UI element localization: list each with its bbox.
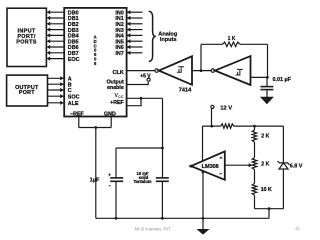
resistor R5 10K: [252, 183, 272, 208]
inverter U2b: [211, 56, 250, 85]
wire ground rail: [96, 217, 269, 219]
svg-text:–: –: [219, 172, 222, 178]
inverter U2a 7414: [155, 56, 192, 93]
wire ground drop: [95, 128, 97, 219]
footer author text: [135, 226, 171, 231]
wire VCC net: [127, 98, 163, 148]
wire divider bottom: [255, 208, 284, 210]
wire EOC to input port: [47, 57, 65, 61]
svg-text:EOC: EOC: [68, 57, 80, 63]
wire analog input IN0: [127, 10, 143, 14]
node junction divider bottom: [268, 207, 271, 210]
svg-text:CLK: CLK: [112, 70, 123, 76]
svg-text:–: –: [109, 183, 112, 188]
wire DB3 to input port: [47, 28, 65, 32]
svg-text:inputs: inputs: [160, 37, 177, 43]
svg-text:12 V: 12 V: [220, 105, 232, 111]
ADC0808 data pin labels DB0-DB7 EOC: [68, 10, 80, 62]
wire inverter2 input: [251, 76, 268, 78]
svg-text:6.8 V: 6.8 V: [290, 164, 303, 170]
capacitor C2 1uF: [90, 148, 123, 218]
op-amp U3 LM308: [189, 151, 225, 179]
wire output port to A: [48, 76, 65, 80]
ADC0808 pin label +REF: [110, 100, 124, 106]
wire divider bottom to rail: [268, 209, 270, 219]
ADC0808 pin label CLK: [112, 70, 123, 76]
wire CLK to oscillator: [127, 70, 155, 72]
wire rail to zener: [255, 125, 284, 127]
ADC0808 U1 body: [64, 8, 126, 117]
svg-text:2 K: 2 K: [261, 161, 269, 167]
wire output port to SOC: [48, 94, 65, 98]
node junction -REF GND: [94, 126, 97, 129]
node junction feedback tap: [200, 69, 203, 72]
node junction bypass caps: [161, 147, 164, 150]
wire output port to ALE: [48, 101, 65, 105]
wire output port to C: [48, 88, 65, 92]
ADC0808 pin label VCC: [114, 93, 123, 99]
svg-text:enable: enable: [107, 85, 124, 91]
wire caps top rail: [116, 147, 163, 149]
resistor R1 1K: [201, 36, 268, 47]
wire analog input IN7: [127, 51, 143, 55]
svg-text:Tantalum: Tantalum: [133, 179, 151, 184]
output port box: [7, 75, 48, 106]
ground for C1: [260, 97, 274, 104]
wire DB1 to input port: [47, 16, 65, 20]
svg-text:Mr B Kannan, RIT: Mr B Kannan, RIT: [135, 226, 171, 231]
svg-text:+: +: [219, 157, 222, 162]
svg-text:PORT: PORT: [19, 90, 35, 96]
wire analog input IN2: [127, 22, 143, 26]
wire LM308 V- to ground: [202, 172, 204, 218]
capacitor C1 0.01uF: [260, 77, 291, 97]
node junction 12V rail: [210, 125, 213, 128]
label Analog inputs: [158, 32, 178, 44]
svg-text:10 K: 10 K: [261, 187, 272, 193]
ADC0808 control pin labels A B C SOC ALE: [68, 77, 80, 108]
svg-text:–REF: –REF: [70, 111, 84, 117]
input port box: [7, 8, 46, 66]
wire analog input IN1: [127, 16, 143, 20]
wire LM308 V+ supply: [202, 126, 204, 161]
wire 12V drop: [211, 109, 213, 127]
svg-text:SOC: SOC: [68, 94, 80, 100]
node junction divider top: [253, 125, 256, 128]
wire +REF branch: [127, 98, 141, 105]
wire LM308 +input to wiper: [225, 163, 253, 167]
svg-text:0.01 µF: 0.01 µF: [273, 77, 292, 83]
node junction VCC +REF: [140, 97, 143, 100]
ADC0808 pin label Output enable: [106, 79, 124, 91]
wire DB2 to input port: [47, 22, 65, 26]
svg-text:PORTS: PORTS: [16, 39, 36, 45]
wire DB5 to input port: [47, 39, 65, 43]
svg-text:LM308: LM308: [202, 164, 219, 170]
node junction C2 ground: [115, 217, 118, 220]
zener diode D1 6.8V: [278, 126, 303, 209]
resistor R4 2K potentiometer: [252, 158, 269, 184]
svg-text:IN7: IN7: [115, 51, 123, 57]
node junction LM308 V-: [202, 171, 205, 174]
svg-text:ALE: ALE: [68, 101, 79, 107]
wire +5V to output enable: [127, 82, 149, 84]
svg-text:1µF: 1µF: [90, 177, 100, 183]
wire -REF GND tie: [79, 117, 111, 128]
svg-text:+REF: +REF: [110, 100, 124, 106]
12V terminal: [211, 105, 232, 111]
wire analog input IN4: [127, 33, 143, 37]
wire output port to B: [48, 82, 65, 86]
wire DB4 to input port: [47, 33, 65, 37]
wire inverter1 input node: [192, 70, 211, 72]
ground symbol main: [196, 218, 209, 234]
wire feedback right riser: [267, 44, 269, 77]
svg-text:C: C: [68, 88, 72, 94]
node junction main ground: [202, 217, 205, 220]
svg-text:41: 41: [295, 226, 301, 231]
wire analog input IN6: [127, 45, 143, 49]
wire DB0 to input port: [47, 10, 65, 14]
wire DB7 to input port: [47, 51, 65, 55]
+5V terminal: [140, 74, 151, 82]
wire analog input IN3: [127, 28, 143, 32]
resistor R3 2K: [252, 126, 269, 158]
ADC0808 analog pin labels IN0-IN7: [115, 10, 123, 57]
node junction RC: [266, 76, 269, 79]
analog inputs brace: [149, 11, 156, 61]
resistor R2 series: [203, 124, 255, 129]
wire feedback left riser: [200, 44, 202, 70]
ADC0808 pin label GND: [104, 111, 116, 117]
svg-text:1 K: 1 K: [228, 36, 236, 42]
svg-text:7414: 7414: [179, 87, 192, 93]
svg-text:+: +: [108, 173, 111, 178]
capacitor C3 10mF tantalum: [133, 148, 168, 218]
svg-text:2 K: 2 K: [261, 134, 269, 140]
ADC0808 pin label -REF: [70, 111, 84, 117]
footer slide number: [295, 226, 301, 231]
wire DB6 to input port: [47, 45, 65, 49]
ADC0808 vertical name text: [94, 35, 97, 66]
node junction C3 ground: [161, 217, 164, 220]
svg-text:GND: GND: [104, 111, 116, 117]
svg-text:+5 V: +5 V: [140, 74, 151, 80]
wire analog input IN5: [127, 39, 143, 43]
